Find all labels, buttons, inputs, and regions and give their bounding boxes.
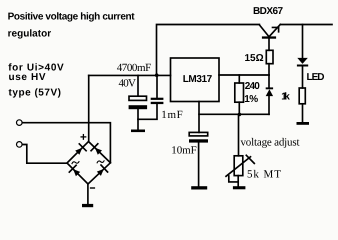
label: plus at bridge: [81, 135, 86, 140]
potentiometer P1 body: [234, 156, 243, 176]
wire: adjust line horizontal: [199, 113, 269, 115]
svg-text:1k: 1k: [281, 91, 290, 102]
transistor Q1 collector diagonal: [259, 25, 268, 37]
potentiometer P1 wiper return wire: [229, 176, 238, 182]
svg-text:BDX67: BDX67: [253, 6, 283, 17]
LED D2 cathode bar: [297, 65, 308, 67]
resistor R1 15 ohm body: [266, 50, 273, 63]
wire: LM317 output line: [219, 74, 269, 76]
resistor R2 240 bottom lead: [238, 102, 240, 114]
bridge diode upper-right: [91, 144, 102, 155]
transistor Q1 emitter arrowhead: [273, 27, 279, 31]
svg-text:regulator: regulator: [8, 29, 52, 40]
potentiometer P1 top lead: [238, 114, 240, 156]
resistor R3 1k body: [299, 88, 305, 104]
node: junction dot input rail / riser / C2: [155, 73, 159, 77]
svg-text:type (57V): type (57V): [9, 87, 62, 98]
transistor Q1 base lead: [268, 39, 270, 51]
svg-text:40V: 40V: [119, 78, 137, 90]
bridge rectifier B1 diamond outline: [67, 142, 110, 185]
resistor R2 240 body: [235, 83, 244, 102]
svg-text:use HV: use HV: [9, 72, 46, 83]
svg-text:10mF: 10mF: [171, 145, 197, 157]
ground: below R3: [297, 122, 310, 125]
potentiometer P1 wiper arrow shaft: [226, 157, 251, 177]
capacitor C2 1mF top lead: [156, 75, 158, 97]
wire: LM317 adjust pin down: [198, 102, 200, 133]
diode D1 bottom lead: [268, 96, 270, 114]
capacitor C3 positive plate: [189, 132, 208, 136]
capacitor C1 positive plate: [129, 96, 147, 100]
svg-text:LED: LED: [307, 72, 325, 83]
ground: below potentiometer: [233, 186, 246, 189]
capacitor C1 bottom lead: [137, 109, 139, 129]
wire: R1 bottom to output node: [268, 64, 270, 75]
svg-text:15Ω: 15Ω: [245, 53, 264, 64]
svg-text:240: 240: [245, 81, 260, 92]
label: tilde left: [72, 162, 79, 164]
wire: terminal T1 to bridge right corner: [22, 123, 110, 163]
wire: terminal T2 to bridge left corner: [22, 145, 67, 164]
wire: emitter output rail: [281, 24, 333, 26]
svg-text:LM317: LM317: [183, 74, 213, 85]
resistor R2 240 top lead: [238, 75, 240, 83]
wire: main input rail: [89, 74, 171, 76]
svg-text:4700mF: 4700mF: [117, 62, 152, 74]
capacitor C3 negative plate: [189, 139, 208, 142]
ground: below C3: [191, 186, 207, 189]
wire: top rail from riser to transistor collector: [157, 25, 260, 76]
diode D1 triangle pointing up: [266, 89, 273, 96]
wire: bridge bottom to ground: [87, 184, 89, 204]
wire: bridge plus column riser: [88, 75, 90, 141]
wire: LED branch drop from output rail: [302, 25, 304, 58]
bridge diode lower-right: [97, 165, 108, 176]
capacitor C3 bottom lead: [198, 143, 200, 187]
capacitor C2 plate top: [151, 98, 164, 100]
LED D2 symbol triangle: [297, 58, 308, 64]
capacitor C1 negative plate: [129, 105, 148, 109]
capacitor C2 plate bottom: [151, 102, 164, 104]
regulator U1 LM317 box: [171, 58, 220, 102]
bridge diode lower-left: [69, 165, 80, 176]
diode D1 cathode bar: [266, 87, 273, 89]
LED D2 bottom lead: [302, 67, 304, 89]
transistor Q1 emitter diagonal: [269, 24, 280, 36]
svg-text:5k MT: 5k MT: [247, 168, 281, 180]
potentiometer P1 wiper arrow barb: [246, 155, 254, 163]
ground: below C1: [131, 130, 145, 133]
svg-text:1%: 1%: [244, 94, 258, 105]
potentiometer P1 bottom lead: [237, 176, 239, 187]
resistor R3 bottom lead: [302, 104, 304, 122]
bridge diode upper-left: [75, 144, 86, 155]
diode D1 top lead: [268, 75, 270, 87]
transistor Q1 base bar: [262, 36, 276, 38]
node: junction dot adjust line / R2 / pot: [238, 113, 242, 117]
terminal T1 input circle: [17, 120, 23, 126]
svg-text:1mF: 1mF: [161, 109, 183, 121]
capacitor C1 top lead: [137, 75, 139, 96]
ground: below bridge: [82, 204, 93, 207]
terminal T2 input circle: [17, 142, 23, 148]
svg-text:Positive voltage high current: Positive voltage high current: [8, 12, 136, 23]
capacitor C2 bottom lead joining C1 lead: [138, 104, 157, 119]
label: minus at bridge: [91, 187, 95, 189]
label: tilde right: [97, 161, 104, 163]
svg-text:voltage adjust: voltage adjust: [241, 137, 300, 149]
